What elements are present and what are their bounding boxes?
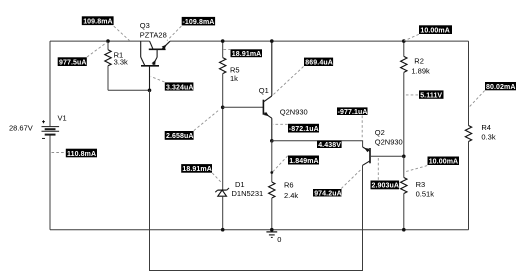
leader 869.4uA [272, 67, 303, 96]
label 18.91mA upper [231, 49, 263, 58]
label 110.8mA [66, 149, 97, 158]
leader 18.91mA upper [224, 49, 231, 51]
wire 4.438V net to Q2 emitter [272, 141, 363, 147]
svg-text:R3: R3 [416, 180, 426, 189]
wire feedback: Q3 base node down, across bottom, up to Q2 collector [150, 90, 363, 270]
transistor Q3 (PZTA28 darlington) [141, 41, 170, 90]
wire top rail right segment [170, 40, 469, 42]
lower emitter diagonal with arrow to upper base [153, 57, 158, 66]
svg-text:D1: D1 [235, 180, 245, 189]
ground [266, 232, 277, 238]
node Q1 emitter junction [270, 139, 274, 143]
svg-text:Q2N930: Q2N930 [375, 138, 403, 147]
label 4.438V [317, 141, 342, 149]
svg-text:80.02mA: 80.02mA [486, 84, 516, 91]
transistor Q1 (Q2N930) [263, 41, 271, 141]
svg-text:18.91mA: 18.91mA [232, 51, 261, 58]
svg-text:Q2N930: Q2N930 [280, 107, 308, 116]
svg-text:V1: V1 [58, 114, 67, 123]
label 3.324uA [165, 82, 194, 91]
svg-text:4.438V: 4.438V [318, 142, 341, 149]
wire Q1 base [223, 106, 264, 108]
svg-text:-977.1uA: -977.1uA [338, 109, 368, 116]
resistor R5 [220, 41, 226, 190]
svg-text:5.111V: 5.111V [420, 92, 442, 99]
svg-text:R6: R6 [284, 181, 294, 190]
leader 10.00mA right [404, 166, 427, 172]
leader -977.1uA [361, 116, 363, 139]
leader 80.02mA [469, 91, 485, 107]
svg-text:1.89k: 1.89k [411, 67, 430, 76]
leader 974.2uA [341, 169, 362, 189]
svg-text:-109.8mA: -109.8mA [183, 19, 215, 26]
lower device: bar [141, 65, 159, 67]
svg-text:2.4k: 2.4k [284, 191, 298, 200]
svg-text:R2: R2 [414, 57, 424, 66]
resistor R6 [269, 141, 275, 230]
resistor R1 [105, 41, 111, 90]
lower collector diagonal [141, 57, 145, 66]
leader 2.903uA [377, 158, 379, 180]
leader 110.8mA [52, 152, 66, 154]
transistor Q2 (Q2N930, mirrored) [363, 147, 404, 165]
diode D1 (zener D1N5231) [215, 188, 229, 230]
label 5.111V [419, 90, 444, 99]
label 109.8mA [82, 16, 114, 25]
leader 3.324uA [151, 77, 165, 83]
resistor R4 [465, 126, 471, 142]
svg-text:Q2: Q2 [375, 128, 385, 137]
leader 5.111V [406, 94, 418, 96]
svg-text:2.658uA: 2.658uA [166, 133, 194, 140]
leader 977.5uA [87, 42, 107, 57]
svg-text:1k: 1k [230, 74, 238, 83]
collector drop vertical [140, 41, 142, 57]
base pin down [149, 66, 151, 91]
label 80.02mA [485, 82, 516, 91]
svg-text:974.2uA: 974.2uA [314, 190, 342, 197]
label 869.4uA [304, 58, 333, 67]
svg-text:10.00mA: 10.00mA [420, 28, 450, 35]
wire top rail left segment [50, 40, 150, 42]
svg-text:0: 0 [277, 235, 281, 244]
svg-text:10.00mA: 10.00mA [429, 159, 459, 166]
label 10.00mA right [428, 157, 460, 166]
battery V1 [42, 120, 60, 138]
svg-text:R4: R4 [481, 123, 491, 132]
svg-text:1.849mA: 1.849mA [289, 158, 319, 165]
node bottom rail junctions [221, 228, 225, 232]
node top rail junctions [106, 39, 110, 43]
svg-text:Q1: Q1 [259, 86, 269, 95]
label -109.8mA [182, 17, 215, 26]
upper base pin down [156, 49, 158, 57]
svg-text:977.5uA: 977.5uA [59, 60, 87, 67]
leader 1.849mA [273, 156, 288, 172]
wire bottom rail [50, 229, 469, 231]
upper emitter diagonal with arrow to right rail [162, 41, 170, 49]
label 974.2uA [313, 189, 342, 197]
svg-text:D1N5231: D1N5231 [232, 189, 264, 198]
wire R1 bottom to Q3 base node [108, 89, 150, 91]
node Q3 base junction [148, 89, 152, 93]
label 1.849mA [288, 156, 319, 165]
leader -109.8mA [167, 26, 181, 40]
svg-text:3.3k: 3.3k [114, 57, 128, 66]
label 10.00mA top [419, 25, 452, 34]
label 977.5uA [58, 57, 87, 66]
resistor R3 [401, 156, 407, 229]
svg-text:109.8mA: 109.8mA [83, 19, 113, 26]
svg-text:18.91mA: 18.91mA [182, 166, 212, 173]
upper collector diagonal to left rail end [150, 41, 153, 49]
wire left edge vertical (V1 branch) [49, 41, 51, 126]
leader 109.8mA [114, 26, 130, 40]
label -872.1uA [288, 124, 319, 133]
svg-text:PZTA28: PZTA28 [140, 31, 167, 40]
label 2.903uA [371, 181, 400, 190]
svg-text:0.3k: 0.3k [481, 133, 495, 142]
node R2/R3/Q2-base junction [402, 155, 406, 159]
wire right edge vertical (R4 branch) [468, 41, 470, 125]
leader 2.658uA [194, 110, 220, 131]
svg-text:2.903uA: 2.903uA [372, 183, 400, 190]
node probe dot 1.849mA [270, 171, 273, 174]
leader 10.00mA top [404, 34, 419, 41]
svg-text:0.51k: 0.51k [416, 189, 435, 198]
leader 18.91mA lower [212, 173, 221, 183]
svg-text:Q3: Q3 [140, 21, 150, 30]
label 2.658uA [165, 131, 194, 140]
svg-text:869.4uA: 869.4uA [305, 60, 333, 67]
label 18.91mA lower [181, 164, 212, 173]
svg-text:28.67V: 28.67V [9, 124, 33, 133]
resistor R2 [401, 41, 407, 156]
svg-text:110.8mA: 110.8mA [67, 151, 96, 158]
leader -872.1uA [273, 123, 288, 125]
upper device: bar [149, 48, 166, 50]
label -977.1uA [337, 107, 368, 116]
svg-text:3.324uA: 3.324uA [166, 84, 194, 91]
svg-text:-872.1uA: -872.1uA [289, 126, 319, 133]
node R5/Q1-base junction [221, 106, 225, 110]
